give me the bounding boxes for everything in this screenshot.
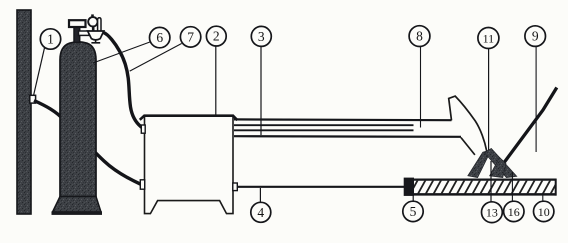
svg-text:5: 5 <box>410 204 417 219</box>
leader 10 <box>542 193 544 201</box>
regulator gauge stem <box>92 27 95 32</box>
callout circle 8 <box>409 26 430 47</box>
workpiece hatching <box>402 180 558 195</box>
nozzle band down-right <box>484 148 517 177</box>
leader 1 <box>34 47 45 95</box>
leader 6 to cylinder <box>93 42 150 63</box>
leader 9 crossing filler rod <box>535 47 537 152</box>
machine lower-right connector <box>233 183 238 191</box>
leader 7 to hose <box>130 44 182 72</box>
svg-text:11: 11 <box>483 31 495 45</box>
callout circle 4 <box>251 202 271 222</box>
callout circle 3 <box>251 26 271 46</box>
workpiece plate white body <box>404 179 557 195</box>
regulator T-handle <box>69 20 86 27</box>
filler rod tip band <box>490 158 506 178</box>
leader 2 to machine top <box>215 46 217 115</box>
callout circle 7 <box>180 27 200 47</box>
torch body outline <box>449 96 487 151</box>
welding machine box <box>145 115 234 213</box>
torch cable bundle line 3 <box>234 129 414 131</box>
cylinder base skirt <box>53 197 102 213</box>
svg-text:10: 10 <box>538 205 550 219</box>
leader 4 <box>259 188 261 202</box>
svg-text:6: 6 <box>156 30 163 45</box>
filler rod <box>500 88 557 168</box>
work lead from machine to workpiece <box>237 186 404 188</box>
regulator funnel foot <box>91 40 100 43</box>
workpiece bottom edge <box>404 193 557 196</box>
svg-text:8: 8 <box>416 29 423 44</box>
regulator gauge <box>88 17 97 26</box>
wall <box>17 10 31 214</box>
svg-text:7: 7 <box>187 30 194 45</box>
torch cable bundle line 2 <box>234 124 414 126</box>
callout circle 2 <box>206 26 226 46</box>
workpiece top edge <box>404 179 557 181</box>
machine lower-left connector <box>140 180 144 189</box>
leader 5 <box>412 194 414 201</box>
torch cable bundle line 1 <box>234 118 452 121</box>
leader 3 to cable bundle <box>260 46 262 135</box>
leader 13 through weld <box>490 161 492 202</box>
machine upper-left connector <box>141 125 145 133</box>
leader 11 to torch tip <box>488 49 490 150</box>
workpiece left clamp cap <box>404 178 414 196</box>
callout circle 13 <box>482 202 503 223</box>
svg-text:13: 13 <box>486 206 498 220</box>
leader 8 to bundle <box>420 47 422 128</box>
regulator stem <box>74 27 80 43</box>
svg-text:9: 9 <box>532 29 539 44</box>
callout circle 6 <box>150 27 170 47</box>
hose from regulator to machine upper-left connector <box>104 33 143 128</box>
callout circle 11 <box>478 28 499 49</box>
workpiece right edge <box>555 179 557 196</box>
gas cylinder body <box>60 42 96 197</box>
svg-text:4: 4 <box>257 205 264 220</box>
svg-text:16: 16 <box>508 205 520 219</box>
svg-text:1: 1 <box>47 32 54 47</box>
callout circle 10 <box>534 201 554 221</box>
callout circle 1 <box>40 29 60 49</box>
regulator right tube <box>98 18 101 31</box>
svg-text:2: 2 <box>213 29 220 44</box>
regulator gauge nub <box>91 14 94 17</box>
callout circle 16 <box>504 201 524 221</box>
flame cone left band <box>468 150 492 178</box>
callout circle 9 <box>525 26 546 47</box>
cylinder base bottom band <box>52 211 103 215</box>
torch cable bundle line 4 <box>234 135 461 138</box>
regulator funnel cup <box>88 31 104 40</box>
hose from wall outlet to machine lower-left connector <box>34 101 141 185</box>
machine top edge with bevel tabs <box>140 116 238 121</box>
leader 16 <box>511 172 513 201</box>
regulator cross bar <box>79 31 90 35</box>
wall gas outlet fitting <box>30 95 36 103</box>
callout circle 5 <box>403 201 423 221</box>
svg-text:3: 3 <box>258 29 265 44</box>
torch handle bottom edge <box>461 138 475 155</box>
